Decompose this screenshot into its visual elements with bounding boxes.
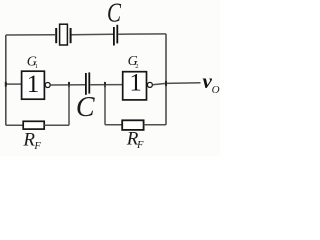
inversion bubble of G2 xyxy=(147,82,152,87)
inversion bubble of G1 xyxy=(45,83,50,88)
crystal X1 left plate xyxy=(55,28,57,43)
inverter G2 box xyxy=(123,72,147,100)
svg-text:1: 1 xyxy=(129,69,142,96)
wire: left vertical rail xyxy=(5,35,7,125)
wire: right vertical rail xyxy=(165,34,167,125)
resistor RF2 body xyxy=(122,120,143,130)
svg-text:2: 2 xyxy=(135,63,138,70)
svg-text:1: 1 xyxy=(27,71,40,98)
wire: feedback drop from node A down to RF1 xyxy=(68,85,70,125)
wire: top rail between crystal and capacitor C xyxy=(72,33,114,35)
svg-text:C: C xyxy=(76,92,95,123)
wire: top feedback rail horizontal xyxy=(6,34,55,36)
svg-text:1: 1 xyxy=(35,63,38,70)
wire: middle capacitor to gate G2 input xyxy=(90,84,122,86)
capacitor C (middle) right plate xyxy=(88,72,90,93)
wire: top rail capacitor to right corner xyxy=(118,33,166,35)
wire: RF2 to right rail xyxy=(144,124,166,126)
wire: bottom left loop horizontal (left rail to RF1) xyxy=(6,124,23,126)
capacitor C (top) right plate xyxy=(116,25,118,44)
svg-text:F: F xyxy=(136,140,144,151)
svg-text:C: C xyxy=(107,0,122,28)
crystal X1 body rectangle xyxy=(60,24,68,45)
wire: RF1 to feedback drop xyxy=(44,124,69,126)
inverter G1 box xyxy=(22,71,45,99)
wire: gate G1 input from left rail xyxy=(6,83,22,85)
junction on left rail at G1 input xyxy=(5,82,7,87)
wire: G2 output to output terminal xyxy=(153,83,201,85)
capacitor C (top) left plate xyxy=(113,27,115,46)
wire: bottom right loop horizontal (node B drop to RF2) xyxy=(105,124,122,126)
junction tick at output node on right rail xyxy=(165,81,167,86)
wire: G1 output to middle capacitor xyxy=(50,84,85,86)
wire: feedback drop from node B down to RF2 xyxy=(104,85,106,125)
svg-text:F: F xyxy=(33,141,41,152)
junction tick at node A (G1 output / RF1 feedback) xyxy=(68,82,70,87)
capacitor C (middle) left plate xyxy=(85,73,87,95)
crystal X1 right plate xyxy=(70,28,72,43)
junction tick at node B (G2 input / RF2 feedback) xyxy=(104,82,106,87)
resistor RF1 body xyxy=(23,121,44,129)
svg-text:O: O xyxy=(212,84,220,96)
